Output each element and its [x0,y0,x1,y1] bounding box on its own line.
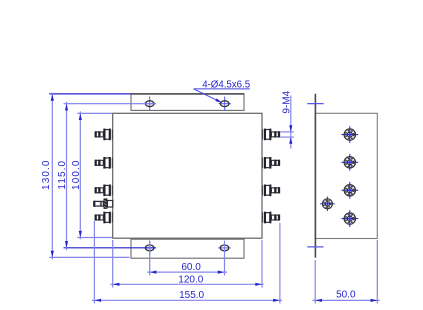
bottom mounting flange [131,239,244,258]
svg-text:130.0: 130.0 [41,159,52,190]
dimension 115.0 [57,102,156,250]
top mounting flange [131,94,244,111]
dimension 130.0 [41,93,131,260]
dimension 100.0 [71,111,113,239]
dimension 120.0 [110,240,263,288]
terminal stud left 2 [95,157,112,169]
side view terminal 1 [341,126,358,143]
terminal stud right 1 [262,129,279,141]
slot hole top-left [143,97,156,111]
svg-text:9-M4: 9-M4 [281,90,292,113]
ground stud left [94,198,113,209]
terminal stud left 3 [95,185,112,197]
terminal stud right 4 [262,212,279,224]
dimension 155.0 [92,221,282,303]
dimension 50.0 [313,240,380,304]
dimension 9-M4 [280,90,294,148]
svg-text:155.0: 155.0 [179,290,204,301]
svg-text:115.0: 115.0 [57,160,68,190]
dimension 60.0 [147,241,227,276]
side view body [315,113,377,238]
svg-text:50.0: 50.0 [336,289,356,300]
side view flange edge [314,94,316,258]
terminal stud left 1 [95,129,112,141]
terminal stud right 2 [262,157,279,169]
side view top slot centerline tick [307,103,323,105]
slot hole bottom-right [218,241,231,255]
filter body [113,113,262,238]
side view terminal 3 [341,182,358,199]
slot hole bottom-left [143,241,156,255]
svg-text:120.0: 120.0 [178,275,203,286]
side view bottom slot centerline tick [307,246,323,248]
side view ground terminal [320,196,335,211]
slot hole top-right [218,97,231,111]
side view terminal 4 [341,210,358,227]
leader label 4-D4.5x6.5 [194,80,251,103]
svg-text:4-Ø4.5x6.5: 4-Ø4.5x6.5 [202,80,250,91]
terminal stud left 4 [95,212,112,224]
side view terminal 2 [341,154,358,171]
svg-text:60.0: 60.0 [181,262,201,273]
terminal stud right 3 [262,185,279,197]
svg-text:100.0: 100.0 [71,159,82,190]
